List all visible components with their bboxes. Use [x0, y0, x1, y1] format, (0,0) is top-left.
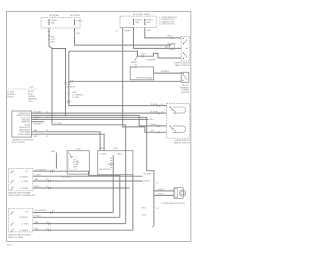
- splice S201: [68, 101, 70, 103]
- svg-text:C305: C305: [142, 215, 147, 217]
- svg-text:DK GRN/WHT: DK GRN/WHT: [35, 169, 48, 171]
- svg-text:UP: UP: [25, 171, 28, 173]
- D row4 wire: [33, 187, 130, 189]
- relay switch blade: [134, 56, 137, 61]
- D feed stub: [55, 153, 57, 169]
- svg-text:ORG/BLK: ORG/BLK: [161, 71, 170, 73]
- fuse block box TL1 (dashed): [41, 18, 80, 29]
- E switch blades: [11, 211, 14, 232]
- connector note above left module: [8, 88, 38, 90]
- svg-text:C2: C2: [46, 179, 48, 181]
- svg-text:(LEFT FRONT): (LEFT FRONT): [12, 142, 25, 144]
- switch C blade 1: [170, 107, 176, 112]
- switch C blade 2: [170, 126, 176, 131]
- svg-text:TAN: TAN: [35, 221, 39, 224]
- breaker blade: [183, 74, 187, 79]
- svg-text:HOT AT ALL: HOT AT ALL: [49, 14, 59, 17]
- D row1 wire: [33, 171, 120, 217]
- motor circle: [179, 190, 185, 196]
- splice branch horizontal y124.8: [52, 124, 126, 126]
- svg-text:C3: C3: [136, 54, 138, 56]
- svg-text:LT BLU: LT BLU: [35, 216, 42, 218]
- svg-text:BLK/WHT: BLK/WHT: [34, 123, 43, 125]
- svg-text:BRN: BRN: [35, 186, 40, 188]
- svg-text:DOWN: DOWN: [131, 67, 138, 69]
- svg-text:TAN: TAN: [34, 129, 38, 132]
- svg-text:BLK: BLK: [150, 119, 154, 121]
- motor housing: [174, 188, 184, 199]
- wire branch down at x52: [51, 49, 53, 125]
- svg-text:C2: C2: [115, 31, 117, 33]
- door lock switch box E (dashed): [8, 208, 33, 232]
- LB row 5 wire down to switch assembly: [31, 132, 100, 151]
- svg-text:LT GRN: LT GRN: [150, 104, 157, 106]
- svg-text:PWR WDO RELAY: PWR WDO RELAY: [136, 76, 153, 79]
- svg-text:LEFT FRONT: LEFT FRONT: [99, 169, 111, 171]
- svg-text:C402: C402: [50, 151, 55, 153]
- svg-text:ORG: ORG: [150, 131, 155, 133]
- svg-text:C (BLU): C (BLU): [116, 153, 123, 155]
- junction with TL1 branch: [65, 115, 66, 116]
- wire from fuse F4 down then right to window switch: [145, 28, 181, 38]
- relay junction dot: [137, 56, 138, 57]
- wire from F1 down: [49, 28, 52, 49]
- svg-text:RIGHT FRONT IN SHADE LEFT: RIGHT FRONT IN SHADE LEFT: [8, 194, 36, 197]
- svg-text:C404: C404: [141, 53, 146, 55]
- svg-text:C305: C305: [99, 148, 104, 150]
- svg-text:C209: C209: [29, 87, 34, 89]
- branch tick: [71, 80, 73, 82]
- svg-text:LT GRN: LT GRN: [21, 181, 28, 183]
- window safety switch box A (dashed): [181, 36, 190, 61]
- svg-text:GRY: GRY: [34, 136, 39, 138]
- svg-text:HOT AT ALL TIMES: HOT AT ALL TIMES: [133, 13, 150, 16]
- LB row 1 wire to switch C pin2: [31, 112, 166, 114]
- svg-text:DK BLU: DK BLU: [143, 180, 150, 182]
- LB row 4b short stub: [31, 121, 44, 123]
- svg-text:GRN/WHT: GRN/WHT: [147, 60, 157, 62]
- svg-text:C3: C3: [156, 182, 158, 184]
- svg-text:DK GRN/WHT: DK GRN/WHT: [35, 210, 48, 212]
- left module box LB: [12, 111, 32, 137]
- svg-text:30-15: 30-15: [7, 245, 12, 247]
- svg-text:DK BLU: DK BLU: [157, 189, 164, 191]
- svg-text:HOT AT ALL: HOT AT ALL: [70, 14, 80, 17]
- svg-text:C (GRY): C (GRY): [100, 153, 108, 155]
- svg-text:TAN: TAN: [35, 178, 39, 181]
- branch to circuit breaker: [69, 80, 181, 82]
- svg-text:SAFETY SWITCH: SAFETY SWITCH: [174, 64, 190, 67]
- window master switch box C (dashed): [167, 104, 190, 139]
- M1 switch blade: [68, 152, 72, 157]
- switch assembly box M1: [67, 151, 89, 174]
- fuse F2: [74, 20, 76, 24]
- motor wire 1: [154, 190, 174, 192]
- inline connector on F4 wire: [171, 37, 173, 39]
- border frame: [7, 12, 191, 242]
- svg-text:C2: C2: [46, 228, 48, 230]
- motor inner circle: [181, 192, 184, 195]
- svg-text:LEFT REAR: LEFT REAR: [20, 131, 31, 134]
- wire relay to box A pin3: [138, 53, 182, 58]
- svg-text:4 = WDO MOTOR: 4 = WDO MOTOR: [159, 24, 175, 26]
- LB row 2 wire stepping down to pin3: [31, 115, 166, 126]
- svg-text:C2: C2: [46, 222, 48, 224]
- pin4 wire connector: [158, 131, 160, 133]
- inline connector marks: [142, 55, 144, 57]
- motor bracket: [175, 189, 178, 198]
- svg-text:FUSE 2: FUSE 2: [76, 20, 83, 22]
- motor wire 2: [154, 194, 174, 196]
- pin1 wire labels and connector: [158, 104, 160, 106]
- wire from fuse F3 down then right to box A: [134, 28, 182, 49]
- svg-text:S300: S300: [108, 164, 112, 166]
- switch blade 1: [184, 39, 188, 43]
- svg-text:DOWN/LT: DOWN/LT: [19, 176, 28, 178]
- M1 sub box dashed: [69, 156, 77, 170]
- relay outline box: [130, 67, 153, 80]
- svg-text:DK GRN: DK GRN: [150, 111, 158, 113]
- vertical bus V1: [112, 155, 114, 212]
- E row3 wire: [33, 223, 126, 225]
- svg-text:C3: C3: [156, 208, 158, 210]
- wire branch right to x65.5: [52, 49, 66, 116]
- svg-text:LT GRN: LT GRN: [55, 123, 62, 125]
- svg-text:C2: C2: [46, 186, 48, 188]
- svg-text:UP: UP: [25, 211, 28, 213]
- svg-text:LT GRN/B: LT GRN/B: [19, 230, 28, 232]
- wire relay box to breaker B: [154, 72, 182, 74]
- circuit breaker box B: [181, 72, 189, 82]
- svg-text:BLU: BLU: [165, 47, 169, 49]
- svg-text:C4: C4: [161, 104, 163, 106]
- LB row 3 wire to motor bus: [31, 117, 153, 225]
- M2 pin dot column: [110, 158, 111, 168]
- svg-text:RED: RED: [142, 208, 147, 210]
- E row1 wire: [33, 212, 113, 214]
- svg-text:C305 (BLK): C305 (BLK): [61, 177, 71, 179]
- wire from F2 down then right to safety switch: [75, 28, 172, 45]
- switch C loop 2: [173, 126, 186, 132]
- svg-text:C306: C306: [113, 148, 118, 150]
- fuse F3: [133, 20, 135, 25]
- svg-text:C1: C1: [46, 111, 48, 113]
- svg-text:C305: C305: [76, 149, 81, 151]
- svg-text:WINDOW: WINDOW: [181, 92, 190, 94]
- LB row 4 wire with end label: [31, 118, 148, 120]
- row1 connector: [158, 112, 160, 114]
- tick marks on splice wire: [68, 92, 70, 95]
- svg-text:ORG: ORG: [167, 35, 172, 37]
- svg-text:DK BLU: DK BLU: [7, 96, 14, 98]
- row2 connector: [158, 125, 160, 127]
- D/E row inline connector ticks: [49, 170, 53, 231]
- door lock switch box D (dashed): [8, 169, 33, 191]
- switch blade 2: [184, 53, 188, 58]
- D switch blades: [11, 170, 14, 190]
- svg-text:RIGHT REAR: RIGHT REAR: [18, 133, 30, 136]
- vertical bus V3: [125, 125, 127, 224]
- svg-text:DK GRN: DK GRN: [34, 111, 42, 113]
- svg-text:LT BLU: LT BLU: [35, 174, 42, 176]
- E row2 wire: [33, 216, 120, 218]
- inline connector C201: [64, 83, 70, 85]
- feeder wire y51 to relay: [69, 51, 138, 56]
- wire from TL2 left pin down: [123, 28, 167, 133]
- wire down to master switch: [69, 51, 167, 105]
- svg-text:RED: RED: [51, 42, 56, 44]
- svg-text:BRN: BRN: [35, 228, 40, 230]
- svg-text:C1: C1: [46, 130, 48, 132]
- fuse block box TL2 (dashed): [120, 16, 157, 28]
- svg-text:DK GRN: DK GRN: [143, 174, 151, 176]
- svg-text:RIGHT OF DASH: RIGHT OF DASH: [8, 236, 23, 239]
- svg-text:LT BLU: LT BLU: [150, 124, 157, 126]
- svg-text:ORG: ORG: [76, 33, 81, 35]
- bus end hook: [152, 225, 154, 227]
- svg-text:MEMORY: MEMORY: [22, 122, 31, 124]
- splice S300 dot on V1: [113, 163, 114, 164]
- vertical bus V4: [132, 175, 134, 231]
- svg-text:LT GRN: LT GRN: [72, 97, 79, 99]
- svg-text:POWER WINDOW MOTOR: POWER WINDOW MOTOR: [161, 203, 185, 205]
- D row2 wire: [33, 175, 143, 177]
- E row4 wire: [33, 229, 133, 231]
- fuse F4: [144, 20, 146, 25]
- D row3 wire: [33, 180, 143, 182]
- LB row 6 wire down to switch assembly: [31, 134, 104, 151]
- svg-text:ORG: ORG: [146, 30, 151, 32]
- svg-text:LT GRN/B: LT GRN/B: [19, 188, 28, 190]
- switch assembly box M2: [98, 151, 133, 175]
- svg-text:C1: C1: [46, 136, 48, 138]
- svg-text:LT GRN: LT GRN: [21, 223, 28, 225]
- fuse F1: [48, 20, 50, 24]
- switch C loop 1: [173, 107, 186, 113]
- svg-text:DOWN/LT: DOWN/LT: [19, 217, 28, 219]
- label box on wire to box A: [170, 44, 175, 49]
- svg-text:YEL: YEL: [127, 30, 131, 32]
- connector C212 on wire: [48, 32, 50, 36]
- svg-text:C210: C210: [28, 101, 33, 103]
- svg-text:C4: C4: [161, 111, 163, 113]
- svg-text:C201 (GRY): C201 (GRY): [65, 86, 76, 88]
- TL2 bottom solid segment: [120, 27, 133, 29]
- svg-text:LT BLU: LT BLU: [157, 194, 164, 196]
- svg-text:MASTER SWITCH: MASTER SWITCH: [174, 141, 190, 144]
